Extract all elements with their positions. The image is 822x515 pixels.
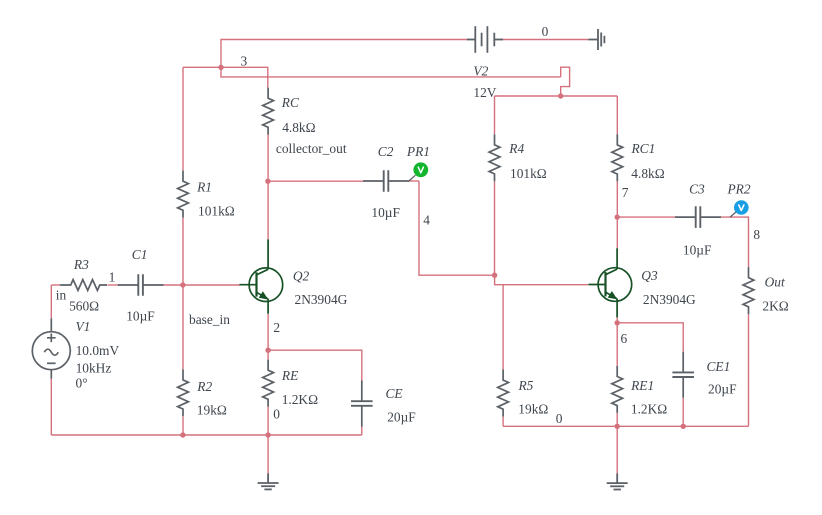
svg-text:12V: 12V	[473, 85, 496, 100]
svg-text:RC1: RC1	[631, 141, 656, 156]
svg-text:Q2: Q2	[293, 268, 310, 283]
svg-text:2N3904G: 2N3904G	[295, 292, 348, 307]
svg-text:0°: 0°	[76, 375, 88, 390]
svg-text:RC: RC	[281, 95, 300, 110]
svg-text:RE1: RE1	[630, 378, 654, 393]
svg-text:C3: C3	[689, 181, 705, 196]
svg-text:20µF: 20µF	[387, 409, 416, 424]
svg-text:CE1: CE1	[707, 359, 731, 374]
svg-text:Q3: Q3	[641, 268, 658, 283]
svg-text:7: 7	[622, 185, 629, 200]
svg-text:R3: R3	[73, 257, 89, 272]
svg-text:0: 0	[273, 406, 280, 421]
svg-text:10µF: 10µF	[126, 309, 155, 324]
svg-text:V1: V1	[76, 319, 91, 334]
svg-text:10kHz: 10kHz	[76, 360, 112, 375]
svg-text:RE: RE	[281, 368, 298, 383]
svg-text:CE: CE	[386, 386, 403, 401]
svg-text:collector_out: collector_out	[276, 141, 347, 156]
svg-text:C2: C2	[378, 144, 394, 159]
svg-text:R2: R2	[196, 379, 212, 394]
svg-text:6: 6	[621, 331, 628, 346]
svg-text:V2: V2	[473, 63, 488, 78]
svg-text:Out: Out	[765, 274, 785, 289]
svg-text:2: 2	[273, 320, 280, 335]
svg-text:19kΩ: 19kΩ	[518, 401, 548, 416]
svg-text:4.8kΩ: 4.8kΩ	[631, 166, 664, 181]
svg-text:560Ω: 560Ω	[69, 299, 99, 314]
svg-text:0: 0	[556, 411, 563, 426]
svg-text:8: 8	[753, 227, 760, 242]
svg-text:20µF: 20µF	[708, 381, 737, 396]
svg-text:2N3904G: 2N3904G	[643, 292, 696, 307]
svg-text:PR2: PR2	[727, 182, 751, 197]
svg-text:R5: R5	[518, 378, 534, 393]
svg-text:10µF: 10µF	[371, 205, 400, 220]
svg-text:4.8kΩ: 4.8kΩ	[282, 120, 315, 135]
svg-text:19kΩ: 19kΩ	[197, 403, 227, 418]
svg-text:1.2KΩ: 1.2KΩ	[631, 402, 667, 417]
svg-text:0: 0	[542, 24, 549, 39]
svg-text:1.2KΩ: 1.2KΩ	[282, 392, 318, 407]
svg-text:1: 1	[109, 270, 116, 285]
svg-text:R4: R4	[508, 141, 524, 156]
svg-text:in: in	[56, 287, 67, 302]
svg-text:10µF: 10µF	[683, 243, 712, 258]
svg-text:101kΩ: 101kΩ	[198, 204, 235, 219]
svg-text:R1: R1	[196, 180, 212, 195]
svg-text:4: 4	[423, 212, 430, 227]
svg-text:2KΩ: 2KΩ	[762, 299, 788, 314]
svg-text:PR1: PR1	[406, 144, 430, 159]
svg-text:base_in: base_in	[189, 312, 230, 327]
svg-text:101kΩ: 101kΩ	[510, 166, 547, 181]
svg-text:10.0mV: 10.0mV	[76, 343, 120, 358]
svg-text:3: 3	[241, 53, 248, 68]
svg-text:C1: C1	[132, 247, 148, 262]
